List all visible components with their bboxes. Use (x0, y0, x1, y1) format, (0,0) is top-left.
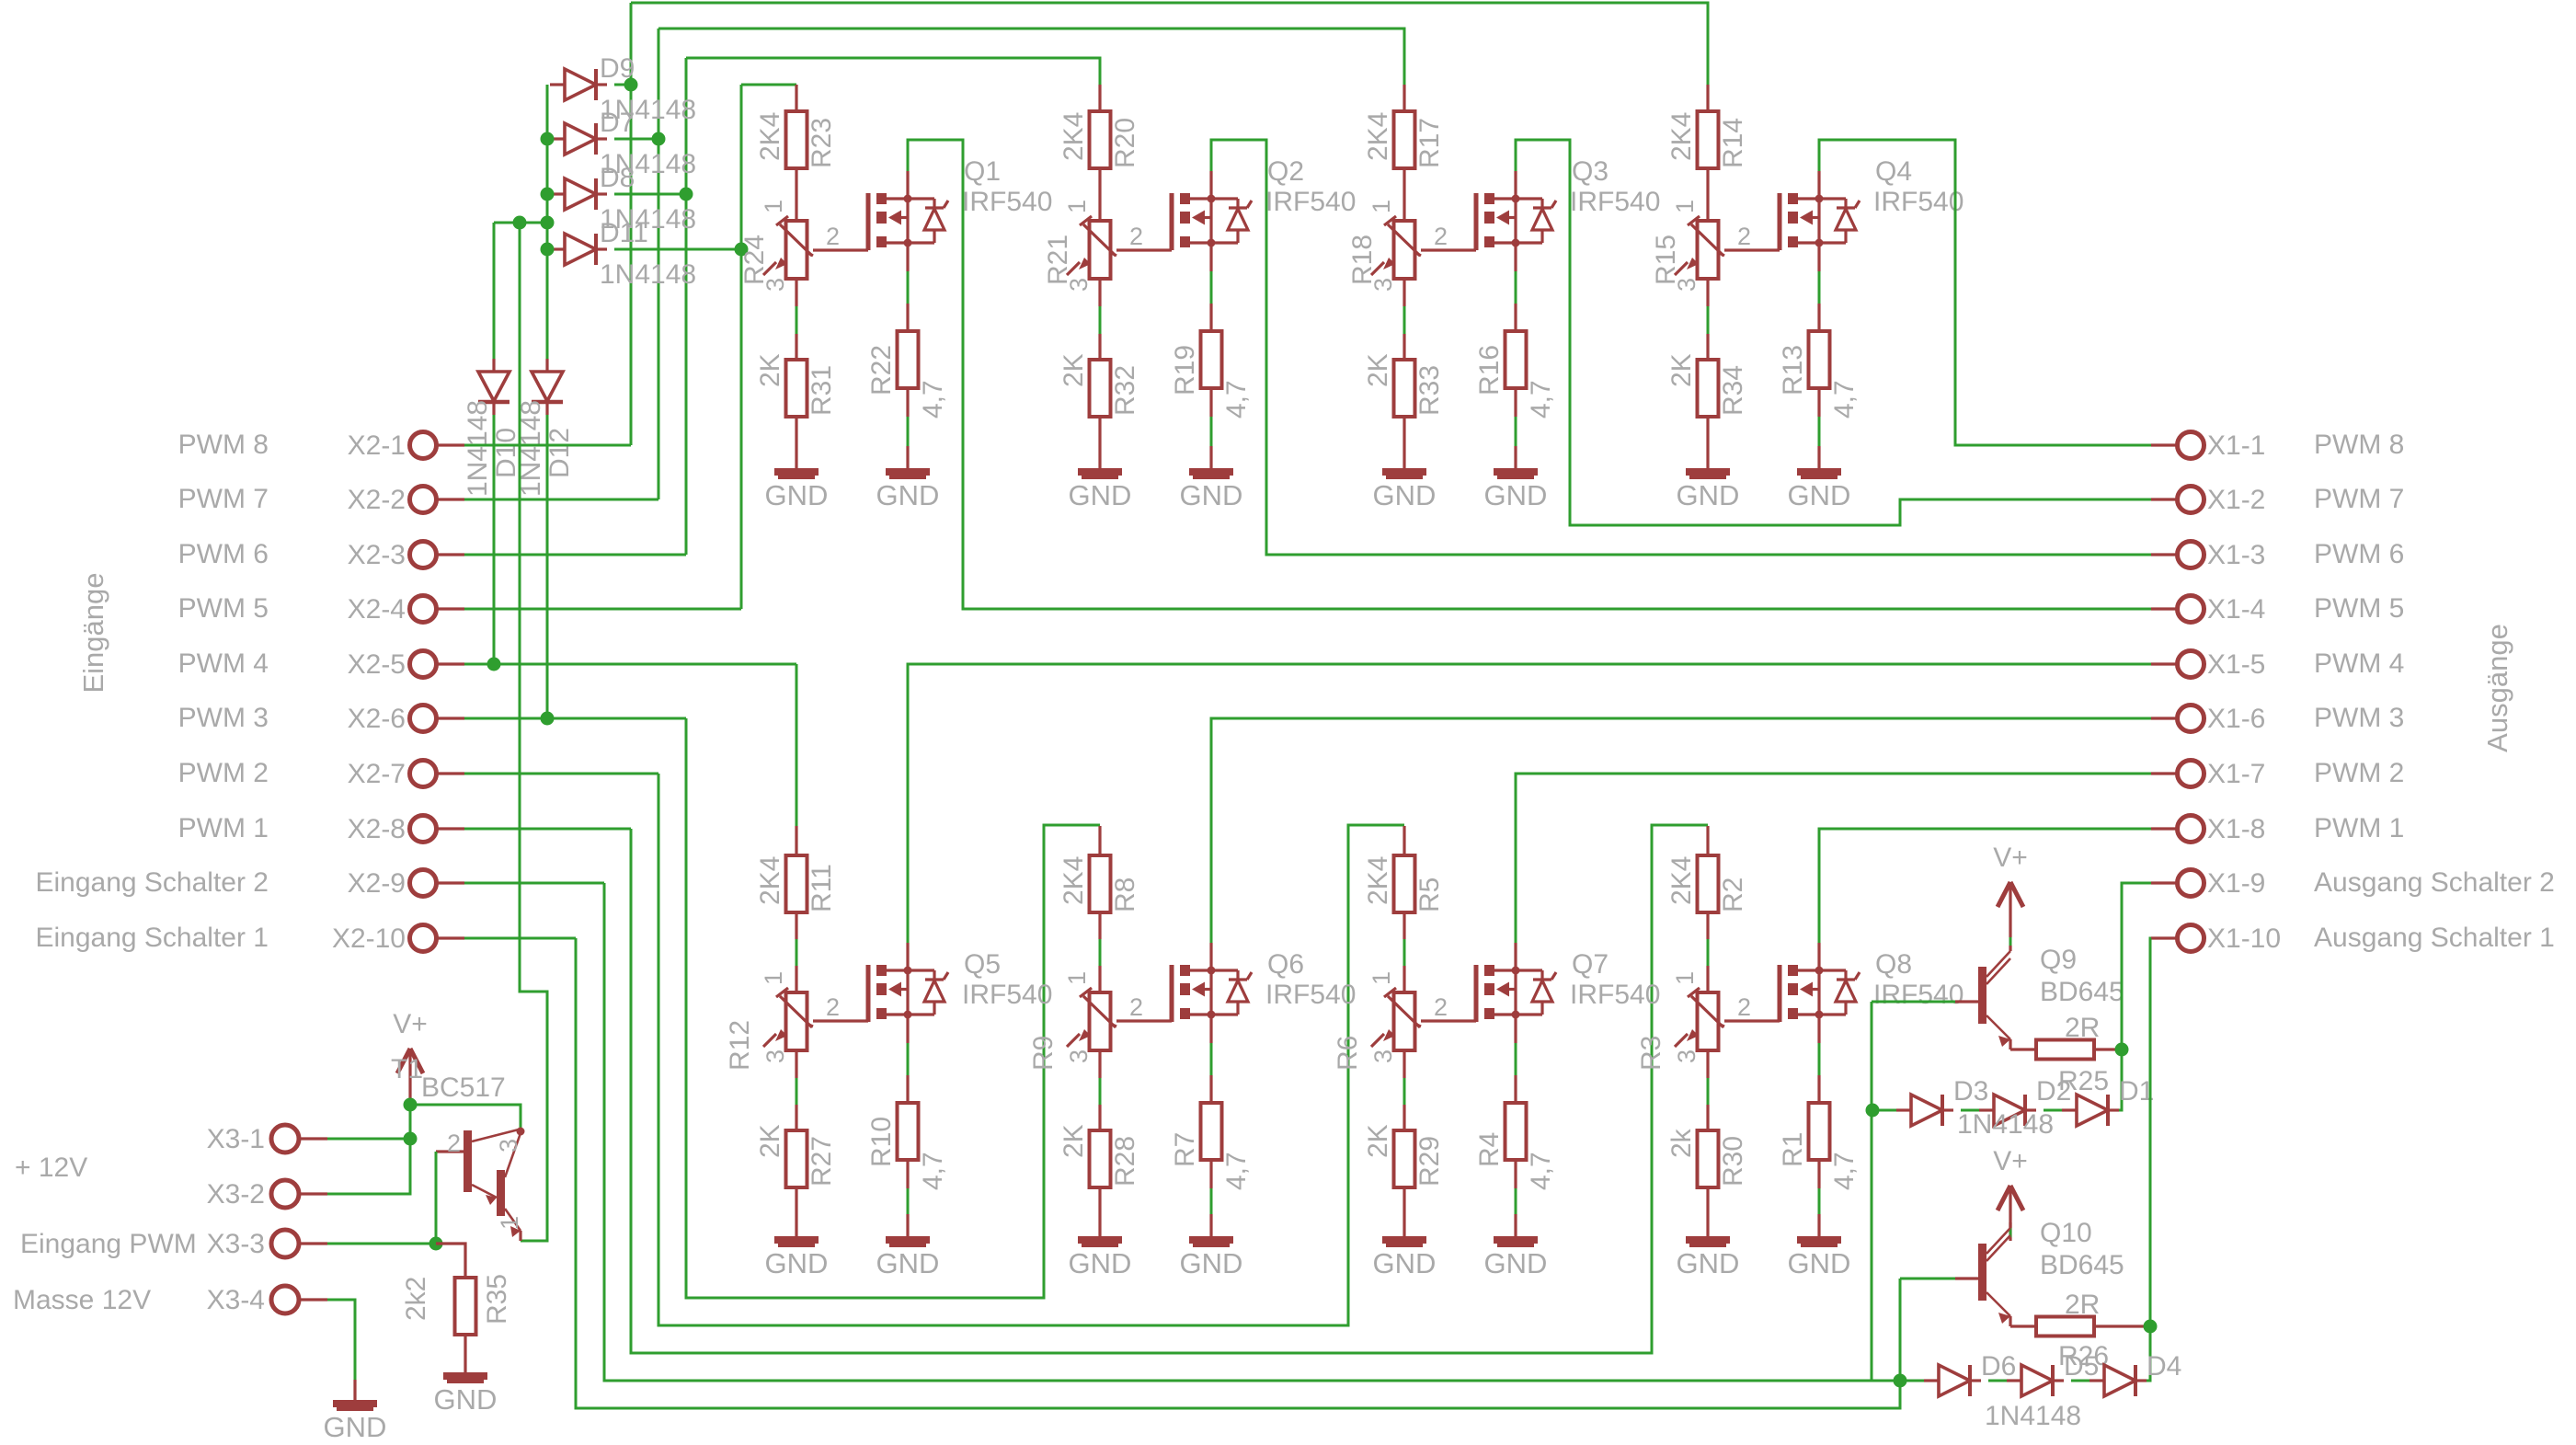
wire X2-6 net (464, 717, 686, 720)
svg-text:1: 1 (1063, 200, 1091, 213)
connector pin X2-4 (410, 596, 437, 623)
wire X1-10 pin stub (2151, 936, 2178, 939)
wire R12 to R27 (796, 1078, 798, 1105)
wire Q10 base pin (1955, 1277, 1978, 1279)
wire X1-4 pin stub (2151, 607, 2178, 610)
wire R5 top pin (1402, 826, 1405, 855)
svg-text:Q8: Q8 (1875, 949, 1912, 980)
svg-text:R35: R35 (482, 1274, 512, 1325)
svg-text:4,7: 4,7 (918, 380, 948, 419)
wire R15 pin3 down (1706, 279, 1709, 306)
wire anode rail lower (546, 411, 549, 718)
wire bus PWM6 vertical (685, 58, 688, 555)
wire R35 top (436, 1244, 465, 1278)
svg-text:2K4: 2K4 (1363, 112, 1393, 161)
wire Q10 base riser (1899, 1279, 1902, 1381)
junction anode rail D11 (541, 243, 555, 257)
svg-text:D10: D10 (491, 428, 521, 478)
ground under R31 (774, 472, 819, 477)
svg-text:2: 2 (447, 1130, 461, 1157)
diode D3 (1896, 1095, 1953, 1126)
svg-text:4,7: 4,7 (1221, 380, 1252, 419)
wire X3-4 pin stub (299, 1298, 327, 1301)
svg-text:IRF540: IRF540 (1265, 980, 1356, 1010)
svg-text:2: 2 (1129, 993, 1143, 1021)
svg-text:2K: 2K (1666, 353, 1697, 387)
svg-text:X3-2: X3-2 (207, 1179, 265, 1210)
svg-text:3: 3 (1369, 1049, 1397, 1063)
resistor R22 (898, 331, 919, 388)
resistor R28 (1090, 1130, 1111, 1187)
ground under R35 (443, 1376, 487, 1382)
svg-text:X1-6: X1-6 (2207, 704, 2265, 734)
svg-text:X2-10: X2-10 (332, 923, 406, 954)
wire R16 pin down (1514, 388, 1517, 417)
svg-text:X1-3: X1-3 (2207, 540, 2265, 570)
wire Q8 source down (1817, 1015, 1820, 1043)
wire X1-10 net (2150, 938, 2151, 1326)
svg-text:PWM 3: PWM 3 (178, 703, 269, 733)
wire Q9 base (1871, 1002, 1873, 1381)
wire PWM6 top feed (686, 58, 1100, 85)
svg-text:IRF540: IRF540 (1265, 187, 1356, 217)
connector pin X1-4 (2178, 596, 2204, 623)
wire R29 top pin (1402, 1105, 1405, 1130)
wire R9 wiper to Q6 gate (1116, 1019, 1172, 1022)
wire X2-2 pin stub (436, 498, 464, 500)
wire R16 gnd pin (1514, 446, 1517, 472)
svg-text:BD645: BD645 (2040, 1250, 2124, 1280)
wire PWM7 top feed (658, 29, 1404, 85)
svg-text:1: 1 (760, 971, 787, 985)
ground under R10 (886, 1240, 930, 1245)
wire bus PWM2 lower (658, 774, 1404, 1325)
potentiometer R12 (763, 988, 812, 1050)
svg-text:PWM 3: PWM 3 (2314, 703, 2404, 733)
wire R3 pin1 (1706, 966, 1709, 992)
svg-text:GND: GND (1373, 1247, 1437, 1279)
svg-text:X1-10: X1-10 (2207, 923, 2281, 954)
wire source link (1515, 1043, 1517, 1075)
wire R21 wiper to Q2 gate (1116, 248, 1172, 251)
svg-text:Ausgang Schalter 2: Ausgang Schalter 2 (2314, 867, 2555, 898)
svg-text:R7: R7 (1170, 1132, 1200, 1167)
ground under R30 (1686, 1240, 1730, 1245)
wire X1-1 pin stub (2151, 443, 2178, 446)
wiper diagonal of R9 (1110, 1024, 1116, 1026)
wire source link (1818, 1043, 1821, 1075)
wire R34 top pin (1706, 334, 1709, 360)
svg-text:IRF540: IRF540 (1570, 980, 1660, 1010)
wire D5-D4 (2071, 1380, 2089, 1382)
svg-text:IRF540: IRF540 (962, 187, 1052, 217)
svg-text:IRF540: IRF540 (1570, 187, 1660, 217)
svg-text:X1-1: X1-1 (2207, 430, 2265, 461)
wire R25 right pin (2094, 1048, 2122, 1050)
connector pin X1-2 (2178, 487, 2204, 513)
svg-text:2K4: 2K4 (1666, 112, 1697, 161)
wire X1-7 pin stub (2151, 772, 2178, 774)
svg-text:2K4: 2K4 (755, 112, 785, 161)
wire R18 wiper to Q3 gate (1421, 248, 1476, 251)
svg-text:2: 2 (1434, 993, 1448, 1021)
transistor Q4 (1780, 193, 1860, 250)
junction cross/565 (513, 216, 527, 230)
junction base/D3 (1866, 1104, 1880, 1118)
svg-text:1N4148: 1N4148 (463, 400, 493, 497)
wire Q4 drain out (1819, 140, 2151, 445)
wire Q4 drain pin up (1817, 171, 1820, 199)
wire link to R3 (1707, 939, 1710, 966)
ground under R28 (1078, 1240, 1122, 1245)
svg-text:Q9: Q9 (2040, 945, 2077, 975)
wire anode rail (546, 85, 549, 359)
wire R14 to R15 (1706, 168, 1709, 221)
svg-text:GND: GND (434, 1383, 498, 1416)
svg-text:X2-6: X2-6 (348, 704, 406, 734)
wire R14 top pin (1706, 85, 1709, 111)
svg-text:1N4148: 1N4148 (1985, 1401, 2081, 1431)
svg-text:2K: 2K (1059, 353, 1089, 387)
wire bus PWM1 lower (631, 825, 1708, 1353)
svg-text:3: 3 (761, 278, 789, 292)
wire X2-6 pin stub (436, 717, 464, 719)
wire X1-8 pin stub (2151, 827, 2178, 830)
svg-text:BC517: BC517 (421, 1072, 506, 1103)
svg-text:R33: R33 (1414, 365, 1445, 416)
svg-text:PWM 6: PWM 6 (2314, 539, 2404, 569)
svg-text:Q3: Q3 (1572, 156, 1609, 187)
junction D12/PWM3 (541, 712, 555, 726)
wire R24 wiper to Q1 gate (813, 248, 868, 251)
wire R34 to GND (1706, 417, 1709, 472)
diode D9 (550, 69, 607, 100)
transistor Q3 (1476, 193, 1556, 250)
wire Q3 drain out (1516, 140, 2151, 525)
wire R8 bottom pin (1098, 912, 1101, 939)
ground under R7 (1189, 1240, 1233, 1245)
resistor R30 (1698, 1130, 1719, 1187)
svg-text:X1-8: X1-8 (2207, 814, 2265, 844)
svg-text:R12: R12 (725, 1020, 755, 1071)
wire R12 pin1 (795, 966, 797, 992)
wire X2-5 net (464, 663, 796, 666)
svg-text:PWM 1: PWM 1 (2314, 813, 2404, 843)
connector pin X2-6 (410, 705, 437, 732)
wiper diagonal of R24 (807, 252, 813, 256)
wire R12 wiper to Q5 gate (813, 1019, 868, 1022)
wire R3 wiper to Q8 gate (1724, 1019, 1780, 1022)
wire R6 pin1 (1402, 966, 1405, 992)
svg-text:X2-1: X2-1 (348, 430, 406, 461)
svg-text:PWM 2: PWM 2 (2314, 758, 2404, 788)
potentiometer R3 (1675, 988, 1723, 1050)
svg-text:4,7: 4,7 (1526, 1152, 1556, 1190)
svg-text:Eingang Schalter 2: Eingang Schalter 2 (35, 867, 269, 898)
wire R2 bottom pin (1706, 912, 1709, 939)
wire R16 top pin (1514, 304, 1517, 331)
wire bus PWM3 lower (686, 718, 1100, 1298)
wire R28 to GND (1098, 1187, 1101, 1240)
svg-text:2k: 2k (1666, 1128, 1697, 1158)
junction X3-1 (404, 1132, 418, 1146)
junction D9/PWM8 (624, 78, 638, 92)
wire R7 gnd pin (1209, 1214, 1212, 1240)
svg-text:2K: 2K (755, 1124, 785, 1158)
svg-text:2K4: 2K4 (1363, 856, 1393, 905)
wire D6-D5 (1988, 1380, 2007, 1382)
diode D2 (1979, 1095, 2036, 1126)
wire R4 gnd pin (1514, 1214, 1517, 1240)
svg-text:R28: R28 (1110, 1136, 1140, 1187)
wire Q7 drain pin up (1514, 943, 1517, 970)
svg-text:GND: GND (1180, 479, 1243, 511)
wire R31 top pin (795, 334, 797, 360)
svg-text:PWM 7: PWM 7 (178, 484, 269, 514)
svg-text:2R: 2R (2065, 1290, 2100, 1320)
power V+ Q9 (1998, 882, 2023, 937)
svg-text:3: 3 (1673, 1049, 1700, 1063)
svg-text:R16: R16 (1474, 345, 1505, 396)
svg-text:X1-5: X1-5 (2207, 649, 2265, 680)
svg-text:4,7: 4,7 (918, 1152, 948, 1190)
wire to GND link (1515, 1188, 1517, 1214)
wire Q8 drain out (1819, 829, 2151, 943)
wire R30 top pin (1706, 1105, 1709, 1130)
svg-text:Q1: Q1 (964, 156, 1001, 187)
wire R6 to R29 (1403, 1078, 1406, 1105)
wire R32 to GND (1098, 417, 1101, 472)
wire Q2 drain pin up (1209, 171, 1212, 199)
svg-text:D6: D6 (1981, 1351, 2016, 1382)
svg-text:Q10: Q10 (2040, 1218, 2092, 1248)
wire R11 top pin (795, 826, 797, 855)
wire R27 to GND (795, 1187, 797, 1240)
wire D chain2 to node (2136, 1326, 2150, 1381)
svg-text:X3-1: X3-1 (207, 1124, 265, 1154)
wire Q3 source down (1514, 243, 1517, 271)
svg-text:T1: T1 (391, 1054, 423, 1084)
ground under R19 (1189, 472, 1233, 477)
wire link to R9 (1099, 939, 1102, 966)
wire Q3 drain pin up (1514, 171, 1517, 199)
wire R20 to R21 (1098, 168, 1101, 221)
wire to GND link (1210, 417, 1213, 446)
wire Q2 drain out (1211, 140, 2151, 555)
wire R28 top pin (1098, 1105, 1101, 1130)
potentiometer R6 (1371, 988, 1420, 1050)
wire X2-4 net (464, 608, 741, 611)
wire R23 top pin (795, 85, 797, 111)
connector pin X1-9 (2178, 870, 2204, 897)
svg-text:GND: GND (1788, 479, 1851, 511)
wire Q10 emitter to R26 (2010, 1325, 2036, 1327)
svg-text:GND: GND (1069, 1247, 1132, 1279)
wiper diagonal of R12 (807, 1024, 813, 1026)
diode D12 (532, 359, 563, 415)
wire X1-3 pin stub (2151, 553, 2178, 556)
svg-text:V+: V+ (1993, 1146, 2028, 1176)
wire Q9 emitter to R25 (2010, 1048, 2036, 1050)
wire source link (1210, 271, 1213, 304)
wire R11 bottom pin (795, 912, 797, 939)
svg-text:R22: R22 (866, 345, 897, 396)
wire R9 pin3 down (1098, 1050, 1101, 1078)
svg-text:R29: R29 (1414, 1136, 1445, 1187)
wire R12 pin3 down (795, 1050, 797, 1078)
diode D11 (550, 234, 607, 265)
wire X2-10 net (464, 937, 576, 940)
wire to GND link (1210, 1188, 1213, 1214)
wire D8 cathode (614, 193, 686, 196)
wiper diagonal of R3 (1718, 1024, 1724, 1026)
svg-text:X1-4: X1-4 (2207, 594, 2265, 625)
wire R2 top pin (1706, 826, 1709, 855)
wire R13 top pin (1817, 304, 1820, 331)
wire R22 pin down (906, 388, 909, 417)
diode D6 (1924, 1365, 1981, 1396)
svg-text:Q6: Q6 (1267, 949, 1304, 980)
svg-text:X2-2: X2-2 (348, 485, 406, 515)
wire X3-4 gnd pin (353, 1380, 356, 1404)
svg-text:R11: R11 (807, 864, 837, 912)
wire R3 pin3 down (1706, 1050, 1709, 1078)
connector pin X1-7 (2178, 761, 2204, 787)
resistor R17 (1394, 111, 1415, 168)
resistor R8 (1090, 855, 1111, 912)
svg-text:2K: 2K (755, 353, 785, 387)
svg-text:2: 2 (1434, 223, 1448, 250)
svg-text:V+: V+ (1993, 843, 2028, 873)
wire R15 wiper to Q4 gate (1724, 248, 1780, 251)
svg-text:4,7: 4,7 (1829, 1152, 1860, 1190)
svg-text:R31: R31 (807, 365, 837, 416)
svg-text:V+: V+ (393, 1009, 428, 1039)
diode D1 (2062, 1095, 2119, 1126)
svg-text:GND: GND (324, 1411, 387, 1443)
svg-text:1N4148: 1N4148 (1957, 1109, 2054, 1140)
svg-text:R4: R4 (1474, 1132, 1505, 1167)
wiper diagonal of R6 (1414, 1024, 1421, 1026)
connector pin X2-7 (410, 761, 437, 787)
transistor T1 BC517 (436, 1128, 525, 1242)
svg-text:4,7: 4,7 (1829, 380, 1860, 419)
connector pin X1-10 (2178, 925, 2204, 952)
wire Q6 source down (1209, 1015, 1212, 1043)
wire Q6 drain out (1211, 718, 2151, 943)
wire Q9 base h (1872, 1001, 1955, 1003)
svg-text:R27: R27 (807, 1136, 837, 1187)
wire X3-3 pin stub (299, 1242, 327, 1244)
wire X2-2 net (464, 499, 658, 501)
wire R10 top pin (906, 1075, 909, 1103)
resistor R5 (1394, 855, 1415, 912)
resistor R19 (1201, 331, 1222, 388)
wire X2-9 pin stub (436, 881, 464, 884)
wire R21 pin3 down (1098, 279, 1101, 306)
svg-text:GND: GND (1788, 1247, 1851, 1279)
wire D3-D2 (1961, 1109, 1979, 1112)
transistor Q8 (1780, 965, 1860, 1022)
connector pin X3-4 (271, 1286, 299, 1313)
wire source link (907, 271, 910, 304)
resistor R10 (898, 1103, 919, 1160)
wire D chain top to node (2109, 1049, 2122, 1110)
resistor R23 (786, 111, 807, 168)
wire X2-4 pin stub (436, 607, 464, 610)
connector pin X1-3 (2178, 542, 2204, 568)
potentiometer R21 (1067, 216, 1116, 279)
svg-text:R10: R10 (866, 1117, 897, 1167)
svg-text:X3-3: X3-3 (207, 1229, 265, 1259)
svg-text:2: 2 (826, 993, 840, 1021)
wire X2-3 net (464, 554, 686, 556)
svg-text:R34: R34 (1718, 365, 1748, 416)
wire Q1 drain out (908, 140, 2151, 609)
wire D7 cathode (614, 138, 658, 141)
svg-text:Q2: Q2 (1267, 156, 1304, 187)
wire link to R12 (796, 939, 798, 966)
resistor R13 (1809, 331, 1830, 388)
ground under R4 (1494, 1240, 1538, 1245)
svg-text:GND: GND (1180, 1247, 1243, 1279)
svg-text:Eingänge: Eingänge (77, 572, 109, 693)
wire Q4 source down (1817, 243, 1820, 271)
svg-text:Ausgang Schalter 1: Ausgang Schalter 1 (2314, 923, 2555, 953)
wire R20 top pin (1098, 85, 1101, 111)
wire R6 pin3 down (1402, 1050, 1405, 1078)
wire R5 bottom pin (1402, 912, 1405, 939)
wire X3-2 net (327, 1139, 410, 1194)
svg-text:2k2: 2k2 (401, 1277, 431, 1321)
wire X1-9 net (2122, 883, 2151, 1049)
svg-text:R20: R20 (1110, 118, 1140, 168)
svg-text:PWM 8: PWM 8 (2314, 430, 2404, 460)
wire R1 top pin (1817, 1075, 1820, 1103)
transistor Q5 (868, 965, 948, 1022)
wire bus Schalter1 lower (576, 938, 1900, 1408)
wire to D3 (1872, 1109, 1896, 1112)
junction D8/PWM6 (680, 188, 693, 201)
wire PWM8 top feed (631, 3, 1708, 85)
wire X3-2 pin stub (299, 1192, 327, 1195)
diode D7 (550, 123, 607, 155)
wire R22 top pin (906, 304, 909, 331)
wire R19 pin down (1209, 388, 1212, 417)
potentiometer R18 (1371, 216, 1420, 279)
resistor R7 (1201, 1103, 1222, 1160)
svg-text:IRF540: IRF540 (1873, 980, 1963, 1010)
svg-text:GND: GND (876, 1247, 940, 1279)
resistor R29 (1394, 1130, 1415, 1187)
connector pin X2-9 (410, 870, 437, 897)
wire R7 pin down (1209, 1160, 1212, 1188)
transistor Q10 (1978, 1222, 2010, 1326)
wire Q10 base h (1900, 1278, 1955, 1280)
wire X3-1 pin stub (299, 1137, 327, 1140)
wire Q1 source down (906, 243, 909, 271)
svg-text:D3: D3 (1953, 1076, 1988, 1107)
wire D9 cathode (614, 84, 631, 86)
connector pin X2-8 (410, 816, 437, 843)
wire Q5 source down (906, 1015, 909, 1043)
svg-text:1: 1 (1368, 971, 1395, 985)
wire anode cross link (494, 222, 547, 224)
wire bus Schalter2 lower (604, 883, 1900, 1381)
wire base riser (435, 1152, 438, 1244)
ground under R27 (774, 1240, 819, 1245)
resistor R34 (1698, 360, 1719, 417)
